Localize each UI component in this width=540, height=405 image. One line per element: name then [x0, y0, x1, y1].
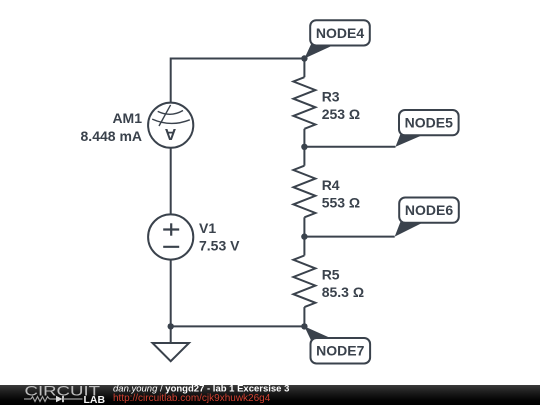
label R5 + value — [322, 267, 364, 301]
resistor R4 — [293, 147, 315, 237]
voltage source V1 — [148, 214, 193, 259]
node junction left-bottom — [168, 323, 174, 329]
svg-text:NODE6: NODE6 — [405, 202, 453, 218]
label R3 + value — [322, 89, 360, 123]
svg-text:7.53 V: 7.53 V — [199, 238, 240, 254]
wire node5 horizontal stub — [304, 146, 395, 148]
svg-text:V1: V1 — [199, 220, 216, 236]
wire node6 horizontal stub — [304, 236, 394, 238]
resistor R5 — [293, 237, 315, 327]
footer logo squiggle (resistor + diode wire) — [24, 396, 83, 402]
node junction node6 — [301, 233, 307, 239]
footer bar — [0, 385, 540, 405]
wire left rail upper segment — [170, 58, 172, 104]
svg-text:R3: R3 — [322, 89, 340, 105]
svg-text:A: A — [164, 125, 176, 142]
svg-text:NODE4: NODE4 — [316, 25, 364, 41]
node NODE4 flag — [304, 20, 369, 58]
svg-text:R4: R4 — [322, 177, 340, 193]
footer logo CIRCUIT — [25, 382, 106, 405]
node NODE7 flag — [304, 326, 370, 363]
wire bottom horizontal (node7 net) — [171, 325, 305, 327]
footer url — [113, 393, 271, 404]
label AM1 + value — [81, 110, 143, 144]
svg-text:http://circuitlab.com/cjk9xhuw: http://circuitlab.com/cjk9xhuwk26g4 — [113, 393, 271, 404]
svg-text:553 Ω: 553 Ω — [322, 195, 360, 211]
svg-text:NODE5: NODE5 — [405, 115, 453, 131]
ammeter AM1 — [148, 103, 193, 148]
footer credit line — [113, 383, 289, 394]
node NODE6 flag — [395, 198, 459, 237]
svg-text:8.448 mA: 8.448 mA — [81, 128, 142, 144]
label V1 + value — [199, 220, 240, 254]
svg-text:LAB: LAB — [84, 395, 106, 405]
node junction node5 — [301, 144, 307, 150]
wire left rail lower segment (V1 to ground node) — [170, 260, 172, 328]
label R4 + value — [322, 177, 360, 211]
wire left rail middle segment (AM1 to V1) — [170, 148, 172, 215]
node NODE5 flag — [396, 110, 459, 147]
svg-text:NODE7: NODE7 — [316, 343, 364, 359]
svg-text:85.3 Ω: 85.3 Ω — [322, 284, 364, 300]
svg-text:R5: R5 — [322, 267, 340, 283]
wire top horizontal (node4 net) — [171, 58, 305, 60]
node junction node4 — [301, 55, 307, 61]
ground — [153, 326, 190, 361]
svg-text:253 Ω: 253 Ω — [322, 106, 360, 122]
svg-text:AM1: AM1 — [112, 110, 142, 126]
resistor R3 — [293, 59, 315, 147]
node junction node7 — [301, 323, 307, 329]
